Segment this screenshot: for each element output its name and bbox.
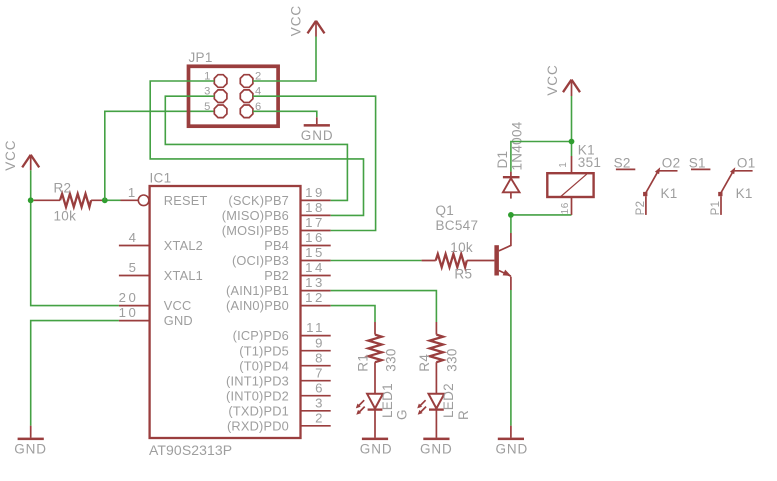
svg-text:GND: GND (14, 442, 47, 457)
svg-text:12: 12 (305, 290, 325, 305)
resistor R4 330 (417, 322, 460, 394)
connector JP1 box (189, 50, 279, 126)
op-amp IC1 AT90S2313P box (149, 171, 301, 458)
svg-text:R5: R5 (454, 266, 472, 281)
svg-text:JP1: JP1 (189, 50, 213, 65)
wire pin10 to GND-left (31, 321, 119, 426)
pin 2 stub (301, 410, 331, 425)
svg-text:15: 15 (305, 245, 325, 260)
wire pad3 to pin19 (165, 96, 347, 200)
svg-text:(AIN0)PB0: (AIN0)PB0 (226, 298, 289, 313)
pin 16 stub (301, 230, 331, 245)
pin 12 stub (301, 290, 331, 305)
supply VCC (left) (3, 140, 39, 171)
ground GND (below JP1) (301, 117, 334, 143)
JP1 pad 6 (240, 101, 261, 118)
svg-text:5: 5 (129, 260, 139, 275)
svg-text:(MOSI)PB5: (MOSI)PB5 (222, 223, 289, 238)
node junction collector/D1/K1 (508, 212, 514, 218)
svg-text:BC547: BC547 (436, 218, 479, 233)
wire D1 bottom to K1 pin16 (511, 214, 572, 216)
svg-text:LED1: LED1 (380, 383, 395, 418)
svg-text:(INT0)PD2: (INT0)PD2 (226, 388, 289, 403)
svg-text:330: 330 (445, 348, 460, 371)
svg-text:VCC: VCC (3, 140, 18, 171)
svg-text:10: 10 (119, 305, 139, 320)
resistor R1 330 (356, 322, 399, 394)
wire pad4 to pin17 (253, 96, 376, 230)
pin 15 stub (301, 245, 331, 260)
svg-text:(INT1)PD3: (INT1)PD3 (226, 373, 289, 388)
pin 20 VCC stub (119, 290, 150, 305)
IC1 left pin names (164, 193, 208, 328)
pin 3 stub (301, 395, 331, 410)
svg-text:10k: 10k (450, 240, 473, 255)
svg-text:330: 330 (383, 348, 398, 371)
pin 6 stub (301, 380, 331, 395)
pin 8 stub (301, 350, 331, 365)
svg-text:IC1: IC1 (150, 171, 172, 186)
svg-text:G: G (395, 409, 410, 420)
pin 4 XTAL2 stub (119, 230, 150, 245)
svg-text:R4: R4 (417, 354, 432, 372)
svg-text:16: 16 (560, 202, 571, 214)
svg-text:(SCK)PB7: (SCK)PB7 (228, 193, 289, 208)
svg-text:P2: P2 (635, 201, 647, 216)
svg-text:(T0)PD4: (T0)PD4 (239, 358, 289, 373)
resistor R5 (422, 240, 495, 282)
svg-text:RESET: RESET (164, 193, 208, 208)
pin 11 stub (301, 320, 331, 335)
svg-text:20: 20 (119, 290, 139, 305)
JP1 pad 5 (204, 101, 227, 118)
svg-text:VCC: VCC (164, 298, 192, 313)
wire VCC-left stem (30, 170, 32, 200)
svg-text:GND: GND (496, 442, 529, 457)
supply VCC (right) (545, 64, 580, 96)
svg-text:VCC: VCC (545, 64, 560, 95)
svg-text:1: 1 (128, 185, 138, 200)
svg-text:K1: K1 (661, 186, 678, 201)
wire VCC node to D1 top (511, 142, 572, 172)
svg-text:XTAL2: XTAL2 (164, 238, 203, 253)
svg-text:9: 9 (315, 335, 325, 350)
svg-text:1N4004: 1N4004 (510, 121, 525, 170)
svg-text:(OCI)PB3: (OCI)PB3 (232, 253, 289, 268)
svg-text:XTAL1: XTAL1 (164, 268, 203, 283)
svg-text:7: 7 (315, 365, 325, 380)
wire pad1 to pin18 (150, 81, 363, 215)
svg-text:16: 16 (305, 230, 325, 245)
transistor Q1 BC547 (436, 203, 512, 290)
ground GND (LED1) (360, 438, 393, 457)
LED2 R (417, 383, 471, 438)
pin 1 RESET stub with bubble (121, 185, 149, 206)
ground GND (left) (14, 426, 47, 457)
pin 7 stub (301, 365, 331, 380)
svg-text:K1: K1 (736, 186, 753, 201)
svg-text:1: 1 (558, 162, 569, 168)
svg-text:(ICP)PD6: (ICP)PD6 (233, 328, 289, 343)
svg-text:LED2: LED2 (441, 383, 456, 418)
pin 9 stub (301, 335, 331, 350)
svg-text:R2: R2 (54, 180, 72, 195)
IC1 right pin names (222, 193, 289, 433)
svg-text:2: 2 (315, 410, 325, 425)
pin 18 stub (301, 200, 331, 215)
JP1 pad 3 (204, 86, 227, 103)
svg-text:17: 17 (305, 215, 325, 230)
wire collector to D1/K1 node (510, 215, 512, 233)
node junction VCC/D1/K1-pin1 (569, 139, 575, 145)
svg-text:351: 351 (578, 155, 601, 170)
wire VCC rail down to pin 20 (31, 200, 119, 305)
pin 10 GND stub (119, 305, 150, 320)
wire pad6 to GND-top (253, 111, 317, 117)
JP1 pad 2 (240, 71, 261, 88)
svg-text:R: R (456, 410, 471, 420)
resistor R2 (34, 180, 105, 223)
node junction VCC/R2 (28, 197, 34, 203)
relay contact S1 (689, 155, 756, 215)
LED1 G (356, 383, 410, 438)
pin 5 XTAL1 stub (119, 260, 150, 275)
svg-text:PB2: PB2 (264, 268, 289, 283)
wire VCC-right stem (571, 96, 573, 142)
svg-text:VCC: VCC (289, 5, 304, 36)
svg-text:P1: P1 (710, 201, 722, 216)
svg-text:6: 6 (315, 380, 325, 395)
pin 13 stub (301, 275, 331, 290)
wire R2 to pin 1 (105, 199, 121, 201)
wire pin13 to R4 (331, 291, 437, 322)
pin 17 stub (301, 215, 331, 230)
svg-text:5: 5 (204, 101, 211, 113)
svg-text:GND: GND (301, 128, 334, 143)
wire pin15 to R5 (331, 260, 422, 262)
wire pad2 to VCC-top (253, 37, 316, 82)
svg-text:8: 8 (315, 350, 325, 365)
wire node to K1 pin1 (571, 142, 573, 157)
JP1 pad 4 (240, 86, 261, 103)
svg-text:19: 19 (305, 185, 325, 200)
svg-text:GND: GND (360, 442, 393, 457)
svg-text:4: 4 (129, 230, 139, 245)
svg-text:13: 13 (305, 275, 325, 290)
pin 19 stub (301, 185, 331, 200)
svg-text:18: 18 (305, 200, 325, 215)
svg-text:AT90S2313P: AT90S2313P (149, 442, 232, 458)
svg-text:S2: S2 (614, 155, 631, 170)
wire pin12 to R1 (331, 306, 375, 322)
svg-text:(RXD)PD0: (RXD)PD0 (227, 418, 289, 433)
svg-text:10k: 10k (54, 209, 77, 224)
diode D1 1N4004 (495, 121, 525, 198)
wire JP1 pad5 to pin1 junction (105, 111, 215, 200)
supply VCC (top) (289, 5, 325, 37)
svg-text:(T1)PD5: (T1)PD5 (239, 343, 289, 358)
svg-text:(AIN1)PB1: (AIN1)PB1 (226, 283, 289, 298)
JP1 pad 1 (204, 71, 227, 88)
pin 14 stub (301, 260, 331, 275)
svg-text:GND: GND (164, 313, 193, 328)
relay K1 coil (547, 143, 601, 215)
node junction R2/pin1/JP1 (102, 197, 108, 203)
svg-text:(TXD)PD1: (TXD)PD1 (228, 403, 289, 418)
svg-text:GND: GND (420, 442, 453, 457)
ground GND (LED2) (420, 438, 453, 457)
svg-text:3: 3 (315, 395, 325, 410)
svg-text:O2: O2 (662, 155, 681, 170)
svg-text:R1: R1 (356, 354, 371, 372)
wire emitter to GND (510, 290, 512, 426)
relay contact S2 (614, 155, 681, 215)
svg-text:(MISO)PB6: (MISO)PB6 (222, 208, 289, 223)
ground GND (emitter) (496, 426, 529, 457)
svg-text:D1: D1 (495, 151, 510, 169)
svg-text:Q1: Q1 (436, 203, 455, 218)
svg-text:O1: O1 (737, 155, 756, 170)
svg-text:S1: S1 (689, 155, 706, 170)
svg-text:11: 11 (306, 320, 325, 335)
svg-text:PB4: PB4 (264, 238, 289, 253)
svg-text:14: 14 (305, 260, 325, 275)
